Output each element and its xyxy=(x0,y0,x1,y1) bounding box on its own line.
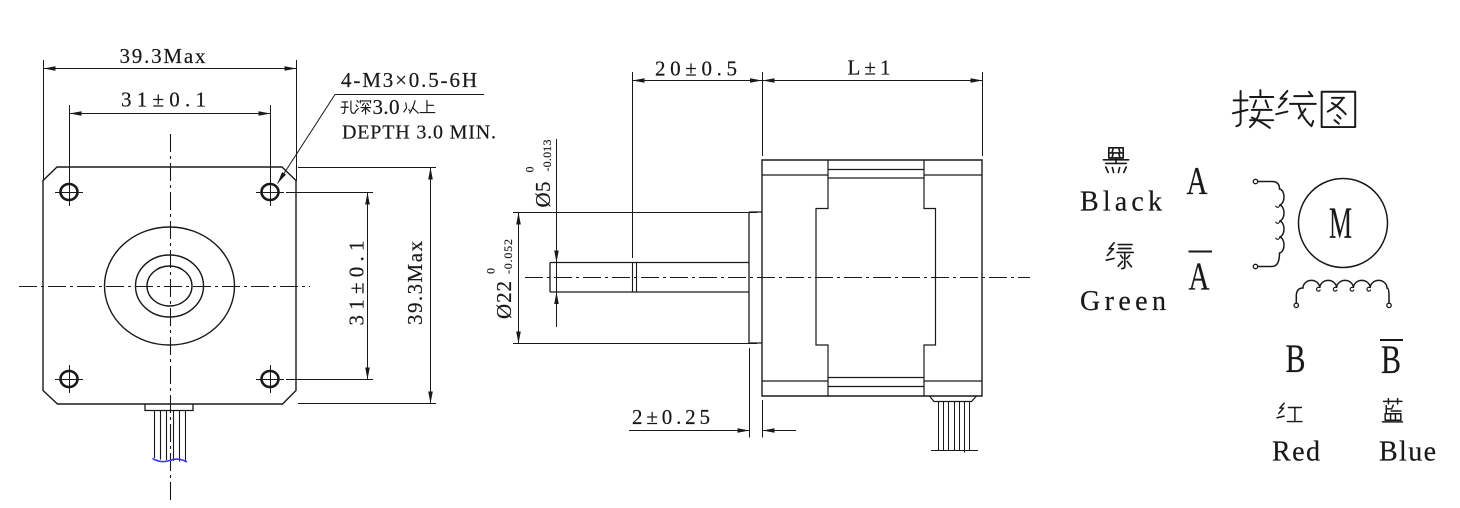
lead wires front xyxy=(155,411,186,462)
svg-text:0: 0 xyxy=(484,268,498,274)
mounting hole bottom-left xyxy=(55,365,83,393)
label A-bar xyxy=(1189,252,1213,299)
coil A terminal bottom xyxy=(1253,264,1257,268)
dimension 2±0.25 xyxy=(629,348,796,438)
shaft circle xyxy=(147,266,192,306)
label 红 xyxy=(1277,403,1302,421)
svg-text:Ø5: Ø5 xyxy=(531,182,555,208)
svg-text:L±1: L±1 xyxy=(848,56,891,80)
svg-text:-0.013: -0.013 xyxy=(540,140,554,172)
front view body outline (chamfered square) xyxy=(43,167,296,404)
coil A terminal top xyxy=(1253,179,1257,183)
wire collar (side) xyxy=(930,396,977,402)
coil A (phase A winding) xyxy=(1258,182,1284,267)
label B-bar xyxy=(1380,337,1403,382)
lead wires side xyxy=(939,402,970,453)
dimension 31±0.1 (top) xyxy=(70,88,271,184)
dimension 39.3Max (right vertical) xyxy=(298,168,436,404)
pilot boss circle xyxy=(105,227,235,345)
dimension 31±0.1 (right vertical) xyxy=(286,193,373,380)
wire break (blue) xyxy=(153,459,188,463)
svg-text:39.3Max: 39.3Max xyxy=(403,241,427,326)
dimension 39.3Max (top) xyxy=(44,44,297,181)
label 黑 xyxy=(1103,148,1128,173)
mounting hole top-right xyxy=(256,178,284,206)
horizontal centerline xyxy=(19,286,310,288)
stator stack lines xyxy=(828,170,924,387)
coil B (phase B winding) xyxy=(1296,280,1389,303)
title 接线图 xyxy=(1233,90,1355,128)
pilot boss (side) xyxy=(749,212,762,343)
svg-text:31±0.1: 31±0.1 xyxy=(345,241,369,326)
svg-text:0: 0 xyxy=(523,167,537,173)
dimension L±1 xyxy=(763,56,983,157)
mounting hole bottom-right xyxy=(256,365,284,393)
svg-text:20±0.5: 20±0.5 xyxy=(655,57,737,81)
svg-text:A: A xyxy=(1189,255,1210,298)
svg-text:Blue: Blue xyxy=(1379,437,1436,468)
side centerline xyxy=(525,277,1030,279)
svg-text:Green: Green xyxy=(1080,286,1166,317)
annotation 孔深3.0以上 xyxy=(341,95,435,119)
coil B terminal left xyxy=(1294,303,1298,307)
front end cap boundary xyxy=(816,160,828,396)
svg-text:-0.052: -0.052 xyxy=(501,239,515,274)
wire end line side xyxy=(931,450,978,452)
shaft joint marks xyxy=(633,263,637,293)
dimension 20±0.5 xyxy=(633,57,763,259)
end cap plate lines xyxy=(762,175,982,381)
motor body outline xyxy=(762,160,982,396)
svg-text:Black: Black xyxy=(1080,187,1162,218)
svg-text:Ø22: Ø22 xyxy=(492,281,516,319)
motor circle M xyxy=(1299,179,1388,268)
leader line to mounting hole xyxy=(276,95,484,185)
dimension Ø5 0/-0.013 xyxy=(523,139,559,327)
coil A cusps xyxy=(1276,205,1280,240)
coil B cusps xyxy=(1317,287,1371,291)
svg-text:39.3Max: 39.3Max xyxy=(120,44,207,68)
svg-text:4-M3×0.5-6H: 4-M3×0.5-6H xyxy=(341,68,477,92)
label 绿 xyxy=(1106,243,1133,269)
svg-text:3.0: 3.0 xyxy=(373,95,400,119)
svg-text:M: M xyxy=(1329,199,1352,248)
shaft (side) xyxy=(550,263,749,293)
dimension Ø22 0/-0.052 xyxy=(484,213,758,344)
svg-text:2±0.25: 2±0.25 xyxy=(632,405,710,429)
label 蓝 xyxy=(1382,399,1402,422)
svg-text:Red: Red xyxy=(1272,437,1320,468)
svg-text:B: B xyxy=(1381,337,1401,382)
vertical centerline xyxy=(170,134,172,502)
mounting hole top-left xyxy=(55,178,83,206)
svg-text:A: A xyxy=(1187,160,1208,203)
rear end cap boundary xyxy=(924,160,936,396)
svg-text:B: B xyxy=(1286,336,1306,381)
wire exit block front xyxy=(145,404,193,411)
svg-text:DEPTH 3.0 MIN.: DEPTH 3.0 MIN. xyxy=(342,122,496,144)
shaft boss circle xyxy=(136,255,204,317)
coil B terminal right xyxy=(1387,303,1391,307)
svg-text:31±0.1: 31±0.1 xyxy=(121,88,206,112)
